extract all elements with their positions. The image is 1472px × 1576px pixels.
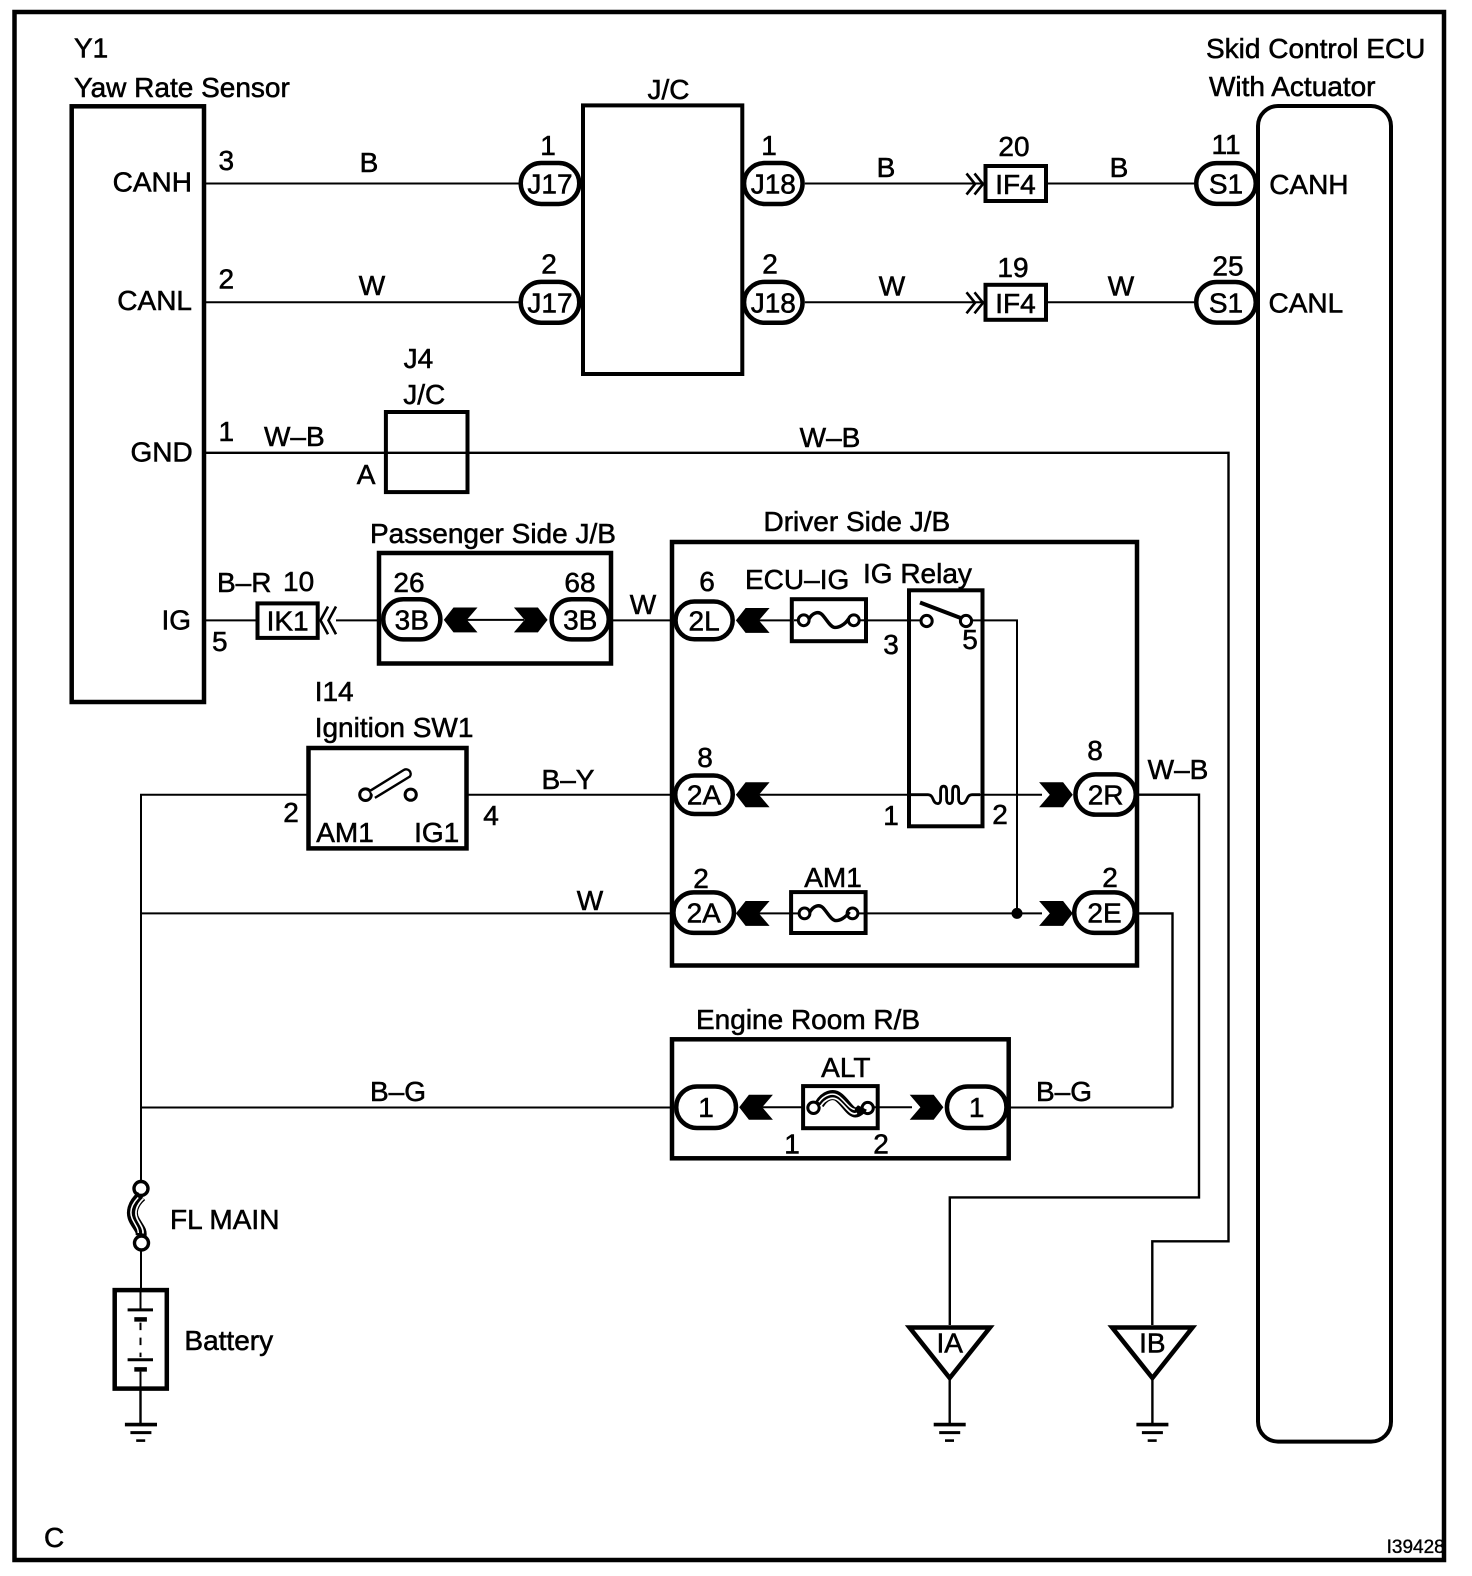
arrow left (to 2L) bbox=[736, 608, 770, 633]
svg-text:B–G: B–G bbox=[1036, 1076, 1092, 1107]
svg-text:CANL: CANL bbox=[1269, 287, 1344, 318]
connector 1 right bbox=[947, 1086, 1007, 1128]
connector IF4 row2 box bbox=[986, 285, 1047, 320]
arrow left (to 1) bbox=[739, 1095, 773, 1120]
svg-text:IA: IA bbox=[936, 1328, 963, 1359]
wire J18 to IF4 row1 bbox=[805, 183, 984, 185]
svg-text:2A: 2A bbox=[687, 898, 722, 929]
svg-text:2: 2 bbox=[693, 863, 709, 894]
ground (IA) bbox=[934, 1425, 966, 1441]
svg-text:25: 25 bbox=[1212, 251, 1243, 282]
svg-text:J18: J18 bbox=[751, 169, 796, 200]
ground triangle IA bbox=[910, 1328, 991, 1379]
connector J18 pin2 bbox=[744, 282, 803, 323]
junction connector J4 box bbox=[386, 412, 468, 492]
junction connector J4 label bbox=[403, 343, 445, 410]
wire AM1 fuse to junction to 2E arrow bbox=[864, 912, 1042, 914]
svg-text:11: 11 bbox=[1211, 129, 1240, 160]
wire IF4 to S1 row1 bbox=[1048, 183, 1194, 185]
svg-text:S1: S1 bbox=[1209, 287, 1243, 318]
svg-text:IG Relay: IG Relay bbox=[863, 558, 972, 589]
svg-text:W–B: W–B bbox=[1148, 754, 1209, 785]
svg-text:Engine Room R/B: Engine Room R/B bbox=[696, 1004, 920, 1035]
connector 3B right bbox=[552, 599, 609, 639]
driver side J/B box bbox=[672, 542, 1137, 966]
arrow left (to 3B) bbox=[444, 608, 478, 633]
svg-text:B–G: B–G bbox=[370, 1076, 426, 1107]
wire 2R out, down, across to IA bbox=[950, 795, 1199, 1325]
svg-text:J/C: J/C bbox=[403, 379, 445, 410]
wire chevrons to 3B bbox=[336, 619, 382, 621]
svg-text:CANH: CANH bbox=[113, 167, 192, 198]
arrow right (to 2R) bbox=[1039, 782, 1073, 807]
svg-text:IG: IG bbox=[161, 605, 191, 636]
ignition switch I14 label bbox=[315, 676, 474, 743]
svg-text:FL MAIN: FL MAIN bbox=[170, 1204, 279, 1235]
svg-text:2R: 2R bbox=[1088, 780, 1124, 811]
ignition switch contacts bbox=[360, 769, 417, 800]
wire 1 to 2E drop bbox=[1009, 1107, 1173, 1109]
svg-text:5: 5 bbox=[962, 624, 978, 655]
svg-text:Skid Control ECU: Skid Control ECU bbox=[1206, 33, 1425, 64]
chevrons out of IK1 bbox=[321, 607, 337, 635]
arrow right (to 3B) bbox=[514, 608, 548, 633]
svg-text:2: 2 bbox=[219, 264, 235, 295]
wire arrow to relay coil bbox=[759, 794, 911, 796]
chevrons into IF4 row1 bbox=[967, 174, 984, 195]
engine room R/B box bbox=[672, 1039, 1009, 1158]
arrow left (to 2A pin8) bbox=[736, 782, 770, 807]
junction dot bbox=[1012, 908, 1023, 919]
fusible link ALT symbol bbox=[808, 1094, 874, 1114]
wire AM1 pin2 to left bus bbox=[141, 795, 309, 1182]
svg-text:Yaw Rate Sensor: Yaw Rate Sensor bbox=[74, 72, 290, 103]
svg-text:IK1: IK1 bbox=[267, 606, 309, 637]
connector Y1 label bbox=[74, 33, 290, 104]
svg-text:Driver Side J/B: Driver Side J/B bbox=[764, 506, 951, 537]
svg-text:S1: S1 bbox=[1209, 169, 1243, 200]
wire IG to IK1 bbox=[206, 619, 256, 621]
svg-text:W–B: W–B bbox=[264, 421, 325, 452]
wire CANL to J17 bbox=[206, 301, 519, 303]
svg-text:W: W bbox=[577, 885, 604, 916]
wire arrow to ECU-IG fuse bbox=[759, 619, 791, 621]
wire 2E out, down to B-G row bbox=[1137, 913, 1173, 1107]
svg-text:3: 3 bbox=[219, 145, 235, 176]
fuse ECU-IG box bbox=[792, 599, 866, 641]
relay IG box bbox=[909, 590, 983, 826]
ignition switch I14 box bbox=[309, 748, 467, 848]
wire between arrows bbox=[467, 619, 524, 621]
connector 1 left bbox=[676, 1086, 736, 1128]
connector J17 pin2 bbox=[521, 282, 580, 323]
wire CANH to J17 bbox=[206, 183, 519, 185]
svg-text:2L: 2L bbox=[689, 605, 720, 636]
fuse ALT box bbox=[803, 1086, 878, 1128]
svg-text:ALT: ALT bbox=[821, 1052, 870, 1083]
svg-text:2: 2 bbox=[1102, 862, 1118, 893]
wire fuse to relay contact bbox=[866, 619, 921, 621]
wire ALT to arrow bbox=[873, 1106, 912, 1108]
svg-text:IG1: IG1 bbox=[414, 817, 459, 848]
wire IB to ground bbox=[1151, 1378, 1153, 1424]
svg-text:2E: 2E bbox=[1087, 898, 1121, 929]
wire IA to ground bbox=[949, 1378, 951, 1424]
connector S1 pin11 bbox=[1196, 163, 1256, 204]
connector J18 pin1 bbox=[744, 163, 803, 204]
ground triangle IB bbox=[1112, 1328, 1192, 1379]
arrow left (to 2A pin2) bbox=[736, 901, 770, 926]
svg-text:B: B bbox=[1110, 152, 1129, 183]
svg-text:20: 20 bbox=[998, 131, 1029, 162]
wire relay switch out, down to 2E junction bbox=[972, 620, 1017, 913]
svg-text:2: 2 bbox=[873, 1129, 889, 1160]
svg-text:1: 1 bbox=[784, 1129, 800, 1160]
wire IF4 to S1 row2 bbox=[1048, 301, 1194, 303]
connector 2A pin8 bbox=[675, 775, 733, 814]
svg-text:B: B bbox=[360, 147, 379, 178]
svg-text:B–Y: B–Y bbox=[542, 764, 595, 795]
svg-text:B: B bbox=[877, 152, 896, 183]
svg-text:2: 2 bbox=[541, 249, 557, 280]
fuse AM1 box bbox=[791, 892, 866, 933]
svg-text:ECU–IG: ECU–IG bbox=[745, 564, 849, 595]
chevrons into IF4 row2 bbox=[967, 292, 984, 313]
svg-text:26: 26 bbox=[393, 567, 424, 598]
svg-text:3: 3 bbox=[883, 629, 899, 660]
svg-text:C: C bbox=[44, 1522, 64, 1553]
connector S1 pin25 bbox=[1196, 282, 1256, 323]
svg-text:1: 1 bbox=[761, 130, 777, 161]
connector 2A pin2 bbox=[673, 892, 734, 933]
wire coil to 2R arrow bbox=[980, 794, 1042, 796]
svg-text:W: W bbox=[630, 589, 657, 620]
svg-text:2A: 2A bbox=[687, 780, 722, 811]
wire J18 to IF4 row2 bbox=[805, 301, 984, 303]
svg-text:With Actuator: With Actuator bbox=[1209, 71, 1376, 102]
svg-text:I14: I14 bbox=[315, 676, 354, 707]
svg-text:1: 1 bbox=[883, 800, 899, 831]
svg-text:J18: J18 bbox=[751, 287, 796, 318]
svg-text:3B: 3B bbox=[563, 604, 597, 635]
wire W row to 2A bbox=[141, 912, 673, 914]
svg-text:AM1: AM1 bbox=[316, 817, 374, 848]
skid control ECU label bbox=[1206, 33, 1425, 102]
connector 2L bbox=[676, 602, 733, 640]
battery cells symbol bbox=[128, 1292, 153, 1388]
svg-text:1: 1 bbox=[969, 1092, 985, 1123]
svg-text:W–B: W–B bbox=[800, 422, 861, 453]
svg-text:2: 2 bbox=[283, 797, 299, 828]
svg-text:1: 1 bbox=[219, 416, 235, 447]
connector IF4 row1 box bbox=[986, 166, 1047, 201]
connector 2R bbox=[1075, 774, 1135, 814]
svg-text:CANL: CANL bbox=[117, 285, 192, 316]
wire 3B to 2L bbox=[611, 619, 673, 621]
wire I14 to 2A (B-Y row) bbox=[467, 794, 674, 796]
svg-text:IB: IB bbox=[1139, 1328, 1165, 1359]
svg-text:4: 4 bbox=[483, 800, 499, 831]
svg-text:Battery: Battery bbox=[184, 1325, 273, 1356]
junction connector J/C box bbox=[583, 105, 742, 374]
svg-text:68: 68 bbox=[564, 567, 595, 598]
ground (IB) bbox=[1136, 1425, 1168, 1441]
svg-text:Y1: Y1 bbox=[74, 33, 108, 64]
connector 3B left bbox=[383, 599, 440, 639]
svg-text:8: 8 bbox=[697, 742, 713, 773]
svg-text:W: W bbox=[359, 270, 386, 301]
passenger side J/B box bbox=[379, 553, 611, 664]
svg-text:W: W bbox=[1108, 271, 1135, 302]
svg-text:IF4: IF4 bbox=[995, 169, 1035, 200]
svg-text:W: W bbox=[879, 271, 906, 302]
relay coil bbox=[911, 786, 980, 803]
wire arrow to AM1 fuse bbox=[759, 912, 792, 914]
svg-text:B–R: B–R bbox=[217, 567, 271, 598]
arrow right (to 2E) bbox=[1039, 901, 1073, 926]
svg-text:8: 8 bbox=[1087, 735, 1103, 766]
svg-text:J17: J17 bbox=[527, 287, 572, 318]
svg-text:2: 2 bbox=[992, 799, 1008, 830]
svg-text:19: 19 bbox=[997, 252, 1028, 283]
fuse ECU-IG symbol bbox=[794, 613, 864, 628]
svg-text:J/C: J/C bbox=[648, 74, 690, 105]
wire B-G row left bbox=[141, 1107, 674, 1109]
svg-text:5: 5 bbox=[212, 626, 228, 657]
svg-text:AM1: AM1 bbox=[804, 862, 862, 893]
fuse AM1 symbol bbox=[793, 906, 864, 921]
ground (battery) bbox=[125, 1425, 157, 1441]
connector IK1 box bbox=[258, 603, 318, 638]
wire GND W-B across to right drop bbox=[206, 453, 1229, 1325]
wire battery to ground bbox=[139, 1390, 141, 1424]
svg-text:10: 10 bbox=[283, 566, 314, 597]
svg-text:6: 6 bbox=[699, 566, 715, 597]
svg-text:Passenger Side J/B: Passenger Side J/B bbox=[370, 518, 616, 549]
skid control ECU box bbox=[1258, 106, 1391, 1442]
battery box bbox=[115, 1290, 167, 1389]
svg-text:I39428: I39428 bbox=[1387, 1537, 1445, 1558]
svg-text:A: A bbox=[357, 459, 376, 490]
svg-text:1: 1 bbox=[698, 1092, 714, 1123]
svg-text:2: 2 bbox=[762, 249, 778, 280]
svg-text:J4: J4 bbox=[404, 343, 434, 374]
yaw rate sensor Y1 box bbox=[72, 106, 204, 702]
svg-text:J17: J17 bbox=[527, 169, 572, 200]
wire FL MAIN to battery bbox=[140, 1250, 142, 1290]
fusible link FL MAIN bbox=[131, 1182, 149, 1251]
svg-text:1: 1 bbox=[540, 130, 556, 161]
connector 2E bbox=[1074, 892, 1135, 933]
svg-text:3B: 3B bbox=[395, 604, 429, 635]
connector J17 pin1 bbox=[521, 163, 580, 204]
svg-text:Ignition SW1: Ignition SW1 bbox=[315, 712, 474, 743]
svg-text:IF4: IF4 bbox=[995, 288, 1035, 319]
svg-text:CANH: CANH bbox=[1269, 169, 1348, 200]
wire arrow to ALT fuse bbox=[762, 1106, 804, 1108]
svg-text:GND: GND bbox=[130, 437, 192, 468]
arrow right (to 1) bbox=[910, 1095, 944, 1120]
relay switch contacts bbox=[920, 603, 972, 627]
